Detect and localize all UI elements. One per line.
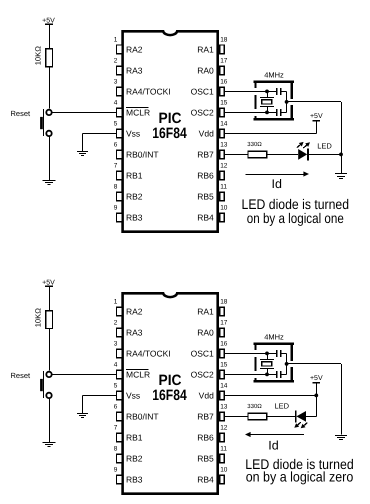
svg-text:on by a logical one: on by a logical one <box>247 210 344 226</box>
wire +5V to resistor <box>49 25 51 49</box>
junction dot (caps common) <box>285 362 289 366</box>
resistor 330Ω (LED series) <box>248 151 267 158</box>
svg-text:RB3: RB3 <box>126 212 143 222</box>
ground (reset button) <box>43 443 56 447</box>
capacitor C2 (OSC2) <box>267 371 287 378</box>
svg-text:13: 13 <box>220 142 228 149</box>
junction dot (cathode / ground rail) <box>339 153 343 157</box>
svg-text:Vdd: Vdd <box>199 128 214 138</box>
caption <box>245 456 353 485</box>
svg-text:LED: LED <box>275 401 290 410</box>
pin 18 RA1 <box>197 37 228 55</box>
crystal 4MHz <box>260 90 274 115</box>
svg-text:+5V: +5V <box>42 17 55 24</box>
pin 3 RA4/TOCKI <box>114 341 171 359</box>
IC PIC16F84 body <box>123 293 218 493</box>
pin 11 RB5 <box>197 446 227 464</box>
svg-text:RA0: RA0 <box>197 65 214 75</box>
svg-text:10: 10 <box>220 467 228 474</box>
svg-text:Vdd: Vdd <box>199 390 214 400</box>
svg-text:14: 14 <box>220 121 228 128</box>
wire RB7 pin 13 to resistor <box>224 416 248 418</box>
wire resistor to LED cathode <box>267 416 296 418</box>
svg-text:LED: LED <box>317 142 332 151</box>
power +5V supply (pull-up) <box>42 17 55 24</box>
power +5V (Vdd) <box>310 113 323 121</box>
ground (LED / oscillator) <box>335 174 347 179</box>
svg-text:RA3: RA3 <box>126 327 143 337</box>
svg-text:RB4: RB4 <box>197 474 214 484</box>
svg-text:9: 9 <box>114 205 118 212</box>
power +5V supply (pull-up) <box>42 279 55 286</box>
svg-text:RB3: RB3 <box>126 474 143 484</box>
ground (reset button) <box>43 181 56 185</box>
svg-text:5: 5 <box>114 383 118 390</box>
pin 8 RB2 <box>114 446 143 464</box>
wire capacitor common rail <box>286 353 288 374</box>
pin 1 RA2 <box>114 37 143 55</box>
pin 7 RB1 <box>114 163 143 181</box>
svg-text:OSC1: OSC1 <box>191 86 214 96</box>
svg-text:11: 11 <box>220 446 227 453</box>
wire pushbutton to MCLR pin 4 <box>52 112 116 114</box>
capacitor C2 (OSC2) <box>267 109 287 116</box>
svg-text:RB1: RB1 <box>126 170 143 180</box>
pin 3 RA4/TOCKI <box>114 79 171 97</box>
svg-text:1: 1 <box>114 299 118 306</box>
resistor 330Ω (LED series) <box>248 413 267 420</box>
pushbutton Reset <box>40 371 52 398</box>
ground (Vss) <box>77 414 88 418</box>
svg-text:2: 2 <box>114 320 118 327</box>
pin 10 RB4 <box>197 467 228 485</box>
wire capacitor common rail <box>286 91 288 112</box>
ground (oscillator) <box>335 436 347 440</box>
pin 5 Vss <box>114 121 140 139</box>
svg-text:RB5: RB5 <box>197 191 214 201</box>
svg-text:RA2: RA2 <box>126 306 143 316</box>
pin 15 OSC2 <box>191 362 228 380</box>
pin 16 OSC1 <box>191 79 228 97</box>
svg-text:17: 17 <box>220 58 228 65</box>
svg-text:16F84: 16F84 <box>152 125 187 142</box>
current arrow Id <box>245 432 304 453</box>
pin 4 MCLR <box>114 362 150 380</box>
svg-text:Vss: Vss <box>126 390 140 400</box>
pushbutton Reset <box>40 109 52 136</box>
svg-text:12: 12 <box>220 163 228 170</box>
current arrow Id <box>245 171 309 191</box>
svg-text:16: 16 <box>220 79 228 86</box>
svg-text:330Ω: 330Ω <box>247 403 262 410</box>
svg-text:MCLR: MCLR <box>126 107 150 117</box>
svg-text:7: 7 <box>114 163 118 170</box>
pin 18 RA1 <box>197 299 228 317</box>
wire resistor to pushbutton <box>49 67 51 109</box>
svg-text:18: 18 <box>220 299 228 306</box>
svg-text:6: 6 <box>114 404 118 411</box>
power +5V (LED supply) <box>310 375 323 383</box>
svg-text:Id: Id <box>271 177 281 191</box>
pin 17 RA0 <box>197 58 228 76</box>
wire pushbutton to MCLR pin 4 <box>52 374 116 376</box>
svg-text:3: 3 <box>114 79 118 86</box>
wire Vdd pin 14 to +5V <box>224 122 316 134</box>
pin 9 RB3 <box>114 467 143 485</box>
svg-text:RB7: RB7 <box>197 411 214 421</box>
pin 14 Vdd <box>199 121 228 139</box>
svg-text:RA1: RA1 <box>197 44 214 54</box>
svg-text:330Ω: 330Ω <box>247 141 262 148</box>
wire Vdd pin 14 to +5V <box>224 395 316 397</box>
svg-text:4MHz: 4MHz <box>264 70 284 79</box>
pin 1 RA2 <box>114 299 143 317</box>
svg-text:RB1: RB1 <box>126 432 143 442</box>
pin 8 RB2 <box>114 184 143 202</box>
svg-text:12: 12 <box>220 425 228 432</box>
wire oscillator to ground rail <box>287 101 341 103</box>
pin 6 RB0/INT <box>114 404 159 422</box>
svg-text:RA3: RA3 <box>126 65 143 75</box>
resistor 10K pull-up <box>46 311 53 329</box>
svg-text:+5V: +5V <box>42 279 55 286</box>
svg-text:on by a logical zero: on by a logical zero <box>246 469 354 485</box>
LED (anode to RB7) <box>297 142 310 161</box>
svg-text:RA0: RA0 <box>197 327 214 337</box>
IC name PIC 16F84 <box>152 372 187 404</box>
svg-text:8: 8 <box>114 184 118 191</box>
svg-text:RA1: RA1 <box>197 306 214 316</box>
wire OSC2 pin 15 to crystal <box>224 112 267 114</box>
pin 13 RB7 <box>197 142 228 160</box>
svg-text:Reset: Reset <box>11 371 32 380</box>
svg-text:6: 6 <box>114 142 118 149</box>
svg-text:RA4/TOCKI: RA4/TOCKI <box>126 86 171 96</box>
wire +5V to LED anode <box>316 384 318 417</box>
svg-text:RB2: RB2 <box>126 191 143 201</box>
pin 12 RB6 <box>197 425 228 443</box>
wire OSC1 pin 16 to crystal <box>224 353 267 355</box>
svg-text:OSC1: OSC1 <box>191 348 214 358</box>
junction dot (Vdd / +5V) <box>314 394 318 398</box>
svg-text:16F84: 16F84 <box>152 387 187 404</box>
svg-text:4MHz: 4MHz <box>264 332 284 341</box>
svg-text:RB2: RB2 <box>126 453 143 463</box>
svg-text:9: 9 <box>114 467 118 474</box>
crystal 4MHz <box>260 352 274 377</box>
svg-text:10KΩ: 10KΩ <box>33 308 42 328</box>
svg-text:Vss: Vss <box>126 128 140 138</box>
svg-text:10: 10 <box>220 205 228 212</box>
wire Vss pin 5 to ground <box>83 395 117 412</box>
svg-text:7: 7 <box>114 425 118 432</box>
svg-text:1: 1 <box>114 37 118 44</box>
svg-text:15: 15 <box>220 100 228 107</box>
caption <box>242 196 350 226</box>
wire resistor to LED anode <box>267 154 299 156</box>
wire oscillator ground rail <box>341 364 343 435</box>
wire Vss pin 5 to ground <box>83 133 117 150</box>
svg-text:RB0/INT: RB0/INT <box>126 411 159 421</box>
svg-text:11: 11 <box>220 184 227 191</box>
pin 6 RB0/INT <box>114 142 159 160</box>
svg-text:8: 8 <box>114 446 118 453</box>
wire RB7 pin 13 to resistor <box>224 154 248 156</box>
wire ground rail <box>341 102 343 174</box>
pin 9 RB3 <box>114 205 143 223</box>
svg-text:RB6: RB6 <box>197 432 214 442</box>
resistor 10K pull-up <box>46 49 53 67</box>
pin 4 MCLR <box>114 100 150 118</box>
capacitor C1 (OSC1) <box>267 88 287 95</box>
svg-text:18: 18 <box>220 37 228 44</box>
svg-text:RA2: RA2 <box>126 44 143 54</box>
pin 5 Vss <box>114 383 140 401</box>
pin 7 RB1 <box>114 425 143 443</box>
pin 15 OSC2 <box>191 100 228 118</box>
wire +5V to resistor <box>49 287 51 311</box>
svg-text:+5V: +5V <box>310 113 323 120</box>
junction dot (caps common) <box>285 100 289 104</box>
svg-text:13: 13 <box>220 404 228 411</box>
svg-text:+5V: +5V <box>310 375 323 382</box>
svg-text:Reset: Reset <box>11 109 32 118</box>
pin 10 RB4 <box>197 205 228 223</box>
pin 2 RA3 <box>114 320 143 338</box>
pin 14 Vdd <box>199 383 228 401</box>
svg-text:RB0/INT: RB0/INT <box>126 149 159 159</box>
svg-text:17: 17 <box>220 320 228 327</box>
svg-text:OSC2: OSC2 <box>191 369 214 379</box>
svg-text:MCLR: MCLR <box>126 369 150 379</box>
LED (cathode to RB7) <box>294 410 307 428</box>
pin 12 RB6 <box>197 163 228 181</box>
IC PIC16F84 body <box>123 31 218 231</box>
pin 17 RA0 <box>197 320 228 338</box>
wire LED cathode to ground rail <box>309 154 341 156</box>
svg-text:RB7: RB7 <box>197 149 214 159</box>
oscillator shield box <box>254 82 294 120</box>
svg-text:10KΩ: 10KΩ <box>33 46 42 66</box>
svg-text:4: 4 <box>114 100 118 107</box>
ground (Vss) <box>77 152 88 156</box>
svg-text:RA4/TOCKI: RA4/TOCKI <box>126 348 171 358</box>
oscillator shield box <box>254 344 294 382</box>
pin 13 RB7 <box>197 404 228 422</box>
wire oscillator to ground rail <box>287 363 341 365</box>
pin 2 RA3 <box>114 58 143 76</box>
svg-text:14: 14 <box>220 383 228 390</box>
svg-text:RB4: RB4 <box>197 212 214 222</box>
svg-text:Id: Id <box>268 439 278 453</box>
svg-text:3: 3 <box>114 341 118 348</box>
svg-text:2: 2 <box>114 58 118 65</box>
pin 16 OSC1 <box>191 341 228 359</box>
wire pushbutton to ground <box>49 399 51 442</box>
svg-text:15: 15 <box>220 362 228 369</box>
svg-text:5: 5 <box>114 121 118 128</box>
svg-text:4: 4 <box>114 362 118 369</box>
IC name PIC 16F84 <box>152 110 187 142</box>
capacitor C1 (OSC1) <box>267 350 287 357</box>
wire LED anode to +5V <box>306 416 316 418</box>
wire OSC2 pin 15 to crystal <box>224 374 267 376</box>
wire pushbutton to ground <box>49 137 51 180</box>
pin 11 RB5 <box>197 184 227 202</box>
svg-text:OSC2: OSC2 <box>191 107 214 117</box>
svg-text:RB6: RB6 <box>197 170 214 180</box>
svg-text:16: 16 <box>220 341 228 348</box>
svg-text:RB5: RB5 <box>197 453 214 463</box>
wire resistor to pushbutton <box>49 329 51 371</box>
wire OSC1 pin 16 to crystal <box>224 91 267 93</box>
